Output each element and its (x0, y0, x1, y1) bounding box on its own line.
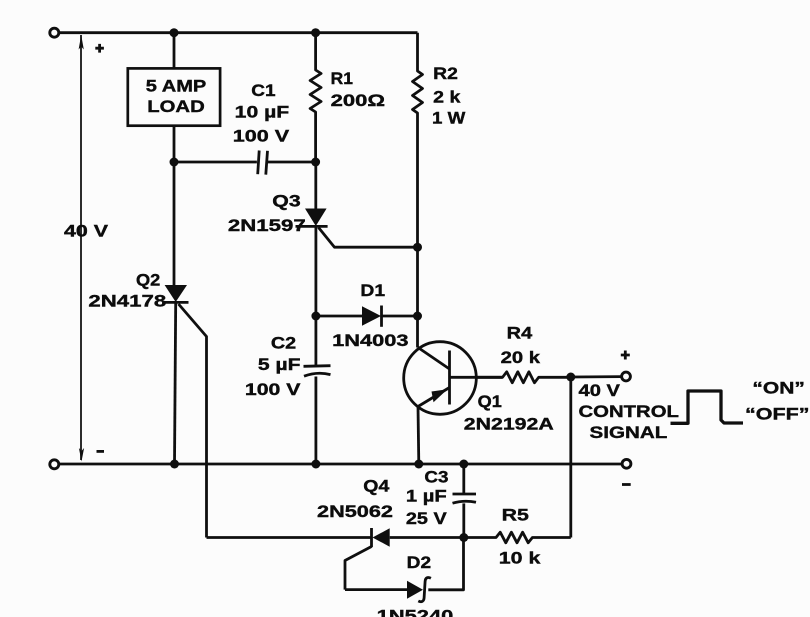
svg-text:20 k: 20 k (501, 348, 541, 367)
plus sign top-left (95, 44, 104, 53)
resistor R2 (413, 33, 423, 248)
node junction C1-R1 (311, 158, 320, 167)
svg-text:10 k: 10 k (499, 549, 541, 568)
svg-text:1N5240: 1N5240 (377, 607, 454, 617)
svg-text:R1: R1 (331, 69, 353, 88)
capacitor C2 (314, 316, 317, 366)
terminal control minus (622, 459, 631, 468)
node junction top R1 (311, 28, 320, 37)
plus sign control (621, 351, 630, 360)
svg-text:LOAD: LOAD (147, 97, 205, 116)
wire trigger row left (207, 536, 372, 539)
thyristor Q4 2N5062 (370, 528, 373, 547)
capacitor C3 (462, 464, 465, 493)
node junctions on bottom rail (170, 460, 179, 469)
svg-text:D2: D2 (407, 553, 431, 572)
wire R2 branch to Q1 collector (416, 247, 419, 347)
node junction top load (170, 28, 179, 37)
svg-text:CONTROL: CONTROL (579, 402, 679, 421)
svg-text:D1: D1 (360, 281, 385, 300)
svg-text:25 V: 25 V (406, 509, 448, 528)
svg-text:2 k: 2 k (433, 87, 461, 106)
terminal control plus (622, 372, 631, 381)
bottom rail (59, 463, 622, 466)
diode D1 1N4003 (362, 306, 381, 325)
terminal bottom-left (50, 460, 59, 469)
node junction Q3 gate / R2 (413, 243, 422, 252)
wire Q3 cathode down (314, 227, 317, 317)
svg-text:“ON”: “ON” (752, 378, 805, 397)
svg-text:10 µF: 10 µF (235, 102, 290, 121)
svg-text:R4: R4 (507, 324, 533, 343)
svg-text:40 V: 40 V (579, 381, 621, 400)
wire to load box (173, 33, 176, 69)
terminal + input top-left (50, 28, 59, 37)
svg-text:2N1597: 2N1597 (228, 216, 306, 235)
svg-text:2N2192A: 2N2192A (464, 414, 554, 433)
svg-text:1 µF: 1 µF (406, 487, 447, 506)
svg-text:Q4: Q4 (363, 477, 390, 496)
capacitor C1 (258, 151, 268, 175)
resistor R1 (310, 33, 321, 162)
svg-text:5 µF: 5 µF (258, 355, 301, 374)
svg-text:1N4003: 1N4003 (332, 331, 409, 350)
svg-text:2N5062: 2N5062 (317, 502, 393, 521)
thyristor Q2 2N4178 (173, 162, 176, 286)
load box 5 AMP LOAD (128, 68, 220, 125)
svg-text:40 V: 40 V (64, 222, 109, 241)
svg-text:“OFF”: “OFF” (745, 405, 810, 424)
node junction below load (170, 158, 179, 167)
wire load box bottom (173, 126, 176, 162)
minus sign bottom-left (97, 450, 105, 453)
svg-text:R2: R2 (433, 64, 458, 83)
thyristor Q3 2N1597 (305, 209, 327, 227)
svg-text:Q2: Q2 (136, 271, 160, 290)
node junction C3 bottom (459, 533, 468, 542)
svg-text:2N4178: 2N4178 (88, 291, 166, 310)
resistor R5 (464, 532, 571, 543)
40V measure line with arrows (80, 35, 82, 460)
svg-text:1 W: 1 W (432, 108, 466, 127)
svg-text:C2: C2 (271, 334, 296, 353)
waveform pulse (671, 391, 744, 423)
zener diode D2 1N5240 (407, 581, 423, 599)
resistor R4 (476, 372, 571, 383)
svg-text:5 AMP: 5 AMP (146, 76, 207, 95)
svg-text:Q1: Q1 (478, 392, 502, 411)
svg-text:200Ω: 200Ω (331, 91, 385, 110)
node junction D1 left / C2 top (311, 312, 320, 321)
minus sign control (622, 483, 631, 486)
wire top rail (59, 31, 418, 34)
control vertical wire (569, 377, 572, 538)
svg-text:C3: C3 (424, 467, 448, 486)
node junction D1 right / R2 branch (413, 312, 422, 321)
node junction R4 / control (566, 373, 575, 382)
wire C1 right (267, 161, 315, 164)
svg-text:100 V: 100 V (233, 127, 290, 146)
svg-text:C1: C1 (251, 81, 275, 100)
wire to plus terminal (571, 375, 622, 378)
svg-text:Q3: Q3 (272, 191, 300, 210)
wire D1 left (316, 315, 362, 318)
transistor Q1 2N2192A (404, 342, 477, 415)
wire R1 node down to Q3 (314, 162, 317, 209)
wire zener row (345, 588, 407, 591)
svg-text:SIGNAL: SIGNAL (590, 423, 668, 442)
svg-text:R5: R5 (502, 505, 529, 524)
svg-text:100 V: 100 V (245, 380, 301, 399)
wire C1 left (174, 161, 257, 164)
